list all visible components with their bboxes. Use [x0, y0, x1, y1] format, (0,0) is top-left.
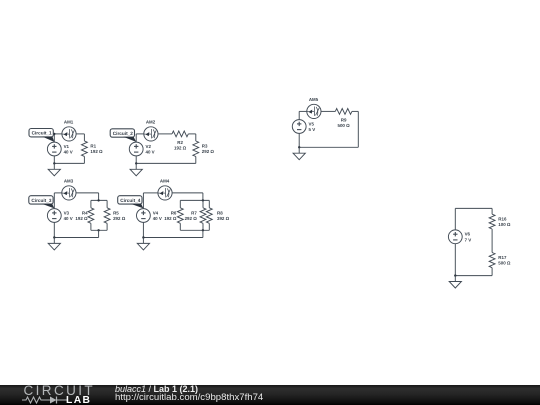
resistor R4 192 Ω: [75, 208, 93, 224]
wire down to parallel pair: [98, 193, 100, 201]
svg-text:Circuit_2: Circuit_2: [113, 131, 133, 136]
svg-text:292 Ω: 292 Ω: [185, 216, 198, 221]
resistor R5 292 Ω: [104, 208, 126, 224]
svg-text:V4: V4: [153, 210, 159, 215]
wire down to R3: [195, 134, 197, 141]
voltage source V2 40 V: [129, 142, 154, 156]
svg-text:392 Ω: 392 Ω: [217, 216, 230, 221]
wire bottom rail circuit 2: [136, 162, 196, 164]
wire down to R16: [491, 208, 493, 214]
node bottom of R6-R8: [202, 229, 204, 231]
ground node circuit 4: [142, 236, 144, 238]
resistor R3 292 Ω: [193, 141, 215, 157]
wire V3 bottom: [53, 222, 55, 237]
ammeter AM1: [62, 120, 76, 141]
ground circuit 3: [48, 238, 60, 250]
ammeter AM5: [307, 97, 321, 118]
wire V3 top to node A3: [53, 193, 55, 209]
resistor R7 292 Ω: [185, 208, 206, 224]
svg-text:AM4: AM4: [160, 179, 170, 184]
wire top rail circuit 6: [455, 207, 492, 209]
svg-text:Circuit_1: Circuit_1: [32, 131, 52, 136]
wire R16 to R17: [491, 229, 493, 253]
wire node A1 to AM1 left: [54, 133, 62, 135]
resistor R16 100 Ω: [489, 214, 511, 229]
wire bottom rail circuit 6: [455, 275, 492, 277]
node A1 junction: [53, 133, 55, 135]
wire bottom rail circuit 3: [54, 237, 98, 239]
wire R17 bottom: [491, 268, 493, 276]
ground node circuit 5: [298, 146, 300, 148]
wire R4 top lead: [90, 200, 92, 207]
wire bottom rail circuit 1: [54, 162, 84, 164]
CircuitLab logo resistor-diode glyph: [22, 396, 67, 404]
svg-text:292 Ω: 292 Ω: [202, 149, 215, 154]
resistor R9 500 Ω: [335, 109, 352, 129]
svg-text:292 Ω: 292 Ω: [113, 216, 126, 221]
svg-text:7 V: 7 V: [465, 238, 472, 243]
svg-text:192 Ω: 192 Ω: [164, 216, 177, 221]
wire V5 bottom: [298, 133, 300, 147]
node top of R6-R8: [202, 199, 204, 201]
wire V4 top to node A4: [142, 193, 144, 209]
ammeter AM3: [62, 179, 76, 200]
resistor R17 500 Ω: [489, 253, 511, 268]
wire V1 bottom: [53, 156, 55, 164]
wire top bar R6-R8: [180, 199, 209, 201]
ground node circuit 1: [53, 162, 55, 164]
ground node circuit 2: [135, 162, 137, 164]
ammeter AM4: [158, 179, 172, 200]
wire down to parallel triple: [202, 193, 204, 201]
svg-text:R2: R2: [177, 140, 183, 145]
wire bottom bar R6-R8: [180, 229, 209, 231]
wire R1 bottom: [83, 156, 85, 163]
wire down to R1: [83, 134, 85, 141]
ground circuit 6: [449, 276, 461, 288]
svg-text:40 V: 40 V: [64, 150, 73, 155]
net flag Circuit_1: [29, 129, 54, 142]
svg-text:AM3: AM3: [64, 179, 74, 184]
wire V5 top corner up: [298, 111, 300, 119]
svg-text:AM1: AM1: [64, 120, 74, 125]
ammeter AM2: [144, 120, 158, 141]
node top of R4-R5: [97, 199, 99, 201]
svg-text:R7: R7: [191, 210, 197, 215]
resistor R2 192 Ω: [172, 131, 188, 151]
wire R5 top lead: [106, 200, 108, 207]
wire V6 top up: [454, 208, 456, 230]
wire V4 bottom: [142, 222, 144, 237]
resistor R6 192 Ω: [164, 208, 183, 224]
wire R6 bottom lead: [179, 223, 181, 230]
svg-text:R6: R6: [171, 210, 177, 215]
ground node circuit 6: [454, 274, 456, 276]
net flag Circuit_2: [110, 129, 136, 142]
wire node A2 to AM2 left: [136, 133, 144, 135]
wire AM2 right to R2: [158, 133, 172, 135]
wire R2 right corner: [188, 133, 196, 135]
wire R7 top lead: [202, 200, 204, 207]
wire top bar R4-R5: [91, 199, 107, 201]
voltage source V5 5 V: [292, 120, 315, 134]
wire R9 right corner: [352, 110, 358, 112]
resistor R8 392 Ω: [206, 208, 229, 224]
footer bar: [0, 385, 540, 405]
svg-text:500 Ω: 500 Ω: [337, 123, 350, 128]
svg-text:V2: V2: [146, 144, 152, 149]
wire right side down circuit 5: [357, 111, 359, 147]
wire AM1 right: [76, 133, 84, 135]
CircuitLab logo CIRCUIT: [24, 384, 96, 398]
node bottom of R4-R5: [97, 229, 99, 231]
ground node circuit 3: [53, 236, 55, 238]
svg-text:V5: V5: [309, 121, 315, 126]
wire R4 bottom lead: [90, 223, 92, 230]
wire AM3 right: [76, 192, 99, 194]
svg-text:40 V: 40 V: [64, 216, 73, 221]
svg-text:V6: V6: [465, 232, 471, 237]
svg-text:R17: R17: [498, 255, 507, 260]
wire R3 bottom: [195, 157, 197, 164]
wire R8 bottom lead: [208, 223, 210, 230]
voltage source V6 7 V: [448, 230, 471, 244]
ground circuit 2: [130, 163, 142, 175]
svg-text:V1: V1: [64, 144, 70, 149]
wire node A4 to AM4 left: [143, 192, 158, 194]
voltage source V1 40 V: [47, 142, 72, 156]
net flag Circuit_4: [118, 196, 144, 209]
svg-text:R4: R4: [82, 210, 88, 215]
wire R8 top lead: [208, 200, 210, 207]
footer title: [115, 384, 198, 394]
wire R7 bottom lead: [202, 223, 204, 230]
svg-text:192 Ω: 192 Ω: [90, 149, 103, 154]
voltage source V3 40 V: [47, 209, 72, 223]
svg-text:R3: R3: [202, 144, 208, 149]
net flag Circuit_3: [29, 196, 55, 209]
svg-text:500 Ω: 500 Ω: [498, 261, 511, 266]
wire AM5 right to R9: [321, 110, 335, 112]
wire V6 bottom: [454, 244, 456, 276]
voltage source V4 40 V: [137, 209, 162, 223]
wire down from bottom bar c4: [202, 230, 204, 237]
svg-text:192 Ω: 192 Ω: [75, 216, 88, 221]
wire V2 top to node A2: [135, 134, 137, 142]
svg-text:R8: R8: [217, 210, 223, 215]
svg-text:5 V: 5 V: [309, 127, 316, 132]
svg-text:40 V: 40 V: [153, 216, 162, 221]
wire R5 bottom lead: [106, 223, 108, 230]
ground circuit 5: [293, 147, 305, 159]
wire node A3 to AM3 left: [54, 192, 62, 194]
wire corner to AM5 left: [299, 110, 307, 112]
wire V1 top to node A1: [53, 134, 55, 142]
wire bottom rail circuit 4: [143, 237, 203, 239]
wire bottom rail circuit 5: [299, 146, 358, 148]
CircuitLab logo LAB: [66, 396, 91, 405]
svg-text:40 V: 40 V: [146, 150, 155, 155]
svg-text:R5: R5: [113, 210, 119, 215]
svg-text:R1: R1: [90, 144, 96, 149]
footer url: [115, 393, 263, 404]
svg-text:R9: R9: [341, 117, 347, 122]
wire R6 top lead: [179, 200, 181, 207]
svg-text:192 Ω: 192 Ω: [174, 146, 187, 151]
wire V2 bottom: [135, 156, 137, 164]
wire AM4 right: [172, 192, 203, 194]
resistor R1 192 Ω: [82, 141, 104, 157]
wire bottom bar R4-R5: [91, 229, 107, 231]
ground circuit 1: [48, 163, 60, 175]
svg-text:AM2: AM2: [146, 120, 156, 125]
ground circuit 4: [137, 238, 149, 250]
svg-text:Circuit_4: Circuit_4: [120, 198, 140, 203]
svg-text:R16: R16: [498, 216, 507, 221]
wire down from bottom bar: [98, 230, 100, 237]
svg-text:V3: V3: [64, 210, 70, 215]
svg-text:Circuit_3: Circuit_3: [31, 198, 51, 203]
svg-text:100 Ω: 100 Ω: [498, 222, 511, 227]
svg-text:AM5: AM5: [309, 97, 319, 102]
